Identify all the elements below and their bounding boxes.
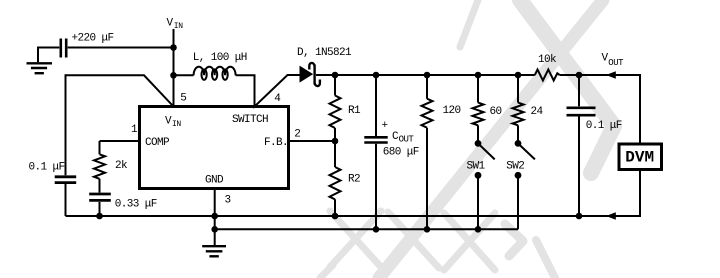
svg-text:V: V — [165, 116, 172, 128]
svg-text:GND: GND — [205, 175, 224, 187]
wire: R1 R2 branch leads — [334, 75, 336, 216]
svg-text:1: 1 — [131, 124, 138, 136]
wire: 60 / SW1 branch — [477, 75, 479, 229]
junction dot R2/bottom rail — [332, 213, 339, 220]
capacitor C1 +220uF plates — [61, 39, 66, 58]
svg-text:OUT: OUT — [399, 134, 415, 144]
junction dot 0.1uF right / bottom rail — [576, 213, 583, 220]
junction dot C_OUT top — [373, 72, 380, 79]
junction dot diode/R1 — [332, 72, 339, 79]
wire: right corner down to DVM — [639, 74, 641, 217]
resistor 2k — [94, 154, 105, 179]
svg-text:IN: IN — [174, 22, 183, 31]
resistor 60 — [473, 103, 484, 126]
junction dot 120 top — [424, 72, 431, 79]
svg-text:F.B.: F.B. — [264, 137, 288, 149]
wire: 0.1uF left vertical — [65, 74, 67, 216]
junction dot 60 top — [475, 72, 482, 79]
capacitor C_OUT plates — [364, 137, 387, 142]
svg-text:680 μF: 680 μF — [383, 146, 419, 158]
DVM box — [619, 144, 662, 170]
svg-text:OUT: OUT — [608, 58, 624, 68]
wire: pin 2 F.B. to R1/R2 node — [289, 140, 336, 142]
ground symbol (input, top-left) — [27, 63, 53, 73]
junction dot 120 bottom — [424, 226, 431, 233]
wire: C_OUT branch — [375, 75, 377, 229]
resistor 10k horizontal — [535, 70, 560, 81]
capacitor 0.33uF plates — [89, 194, 111, 200]
svg-text:SW2: SW2 — [506, 161, 524, 173]
svg-text:0.33 μF: 0.33 μF — [115, 198, 157, 210]
svg-text:V: V — [167, 18, 174, 30]
svg-text:0.1 μF: 0.1 μF — [29, 162, 65, 174]
wire: pin 1 COMP to 2k — [100, 140, 140, 142]
svg-text:R1: R1 — [348, 105, 361, 117]
capacitor 0.1uF right plates — [567, 108, 596, 115]
arrow top (to VOUT) — [606, 71, 616, 79]
wire: GND pin drop — [214, 189, 216, 246]
IC U1 box — [140, 107, 289, 189]
junction dot 10k/0.1uF — [576, 72, 583, 79]
svg-text:R2: R2 — [348, 174, 360, 186]
wire: input cap to VIN node — [37, 47, 174, 63]
svg-text:2k: 2k — [115, 160, 128, 172]
wire: bottom rail 2 — [215, 228, 518, 230]
switch SW2 — [515, 140, 535, 179]
svg-text:+: + — [382, 120, 388, 132]
svg-text:24: 24 — [531, 106, 544, 118]
wire: inductor leads and drop to pin 4 — [174, 75, 301, 107]
junction dot 24 top — [515, 72, 522, 79]
junction dot 2k/bottom rail — [96, 213, 103, 220]
junction dot GND/rail2 — [211, 226, 218, 233]
svg-text:COMP: COMP — [145, 137, 170, 149]
watermark — [320, 0, 614, 278]
resistor R2 — [330, 167, 341, 199]
svg-text:SW1: SW1 — [467, 161, 486, 173]
wire: VIN vertical — [173, 29, 175, 107]
wire: 0.1uF right branch — [578, 75, 580, 216]
capacitor 0.1uF left plates — [55, 177, 76, 183]
svg-text:0.1 μF: 0.1 μF — [586, 120, 622, 132]
svg-text:+220 μF: +220 μF — [72, 33, 114, 45]
inductor L1 100uH — [194, 67, 236, 80]
resistor 24 — [513, 103, 524, 126]
junction dot VIN/L — [170, 72, 177, 79]
wire: bottom rail 1 — [66, 215, 641, 217]
svg-text:120: 120 — [443, 105, 461, 117]
resistor R1 — [330, 96, 341, 129]
junction dot VIN/C1 — [170, 44, 177, 51]
ground symbol (IC GND, bottom) — [202, 246, 226, 256]
svg-text:5: 5 — [180, 93, 186, 105]
svg-text:3: 3 — [225, 195, 231, 207]
junction dot SW1 bottom rail — [475, 226, 482, 233]
junction dot GND/rail1 — [211, 213, 218, 220]
svg-text:SWITCH: SWITCH — [232, 114, 268, 126]
svg-text:2: 2 — [294, 129, 300, 141]
wire: left branch horizontal and diagonal into pin 5 — [66, 75, 174, 106]
wire: diode cathode to top rail with 10k gap — [316, 74, 640, 76]
junction dot R1/R2/FB — [332, 138, 339, 145]
wire: 2k / 0.33uF branch — [99, 141, 101, 216]
wire: 24 / SW2 branch — [517, 75, 519, 229]
diode D 1N5821 — [300, 63, 320, 86]
svg-text:10k: 10k — [538, 54, 557, 66]
svg-text:4: 4 — [274, 93, 281, 105]
svg-text:D, 1N5821: D, 1N5821 — [297, 47, 352, 59]
resistor 120 — [422, 99, 433, 128]
arrow bottom (DVM return) — [606, 212, 616, 220]
svg-text:IN: IN — [172, 120, 181, 129]
svg-text:60: 60 — [490, 106, 502, 118]
svg-text:L, 100 μH: L, 100 μH — [193, 52, 247, 64]
junction dot C_OUT bottom — [373, 226, 380, 233]
svg-text:DVM: DVM — [625, 149, 654, 167]
wire: 120 branch — [426, 75, 428, 229]
switch SW1 — [475, 140, 495, 179]
